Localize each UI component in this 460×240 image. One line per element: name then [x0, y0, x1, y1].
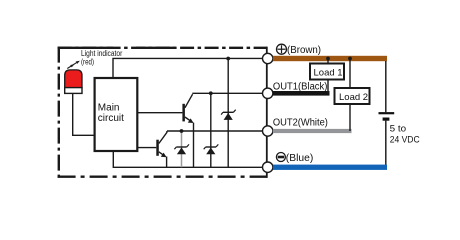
- terminal: OUT1 (Black): [263, 88, 273, 98]
- svg-text:(red): (red): [81, 58, 94, 67]
- zener diode Z1 (OUT2 protection, gray leg): [174, 131, 189, 167]
- terminal: + (Brown): [263, 53, 273, 63]
- label: OUT2(White): [273, 117, 328, 128]
- wire: bottom rail (0V): [113, 151, 262, 167]
- zener diode Z2 (OUT1 protection): [204, 93, 219, 167]
- wire: Q1 base lead: [137, 112, 182, 114]
- zener diode Z3 (supply protection): [221, 59, 236, 168]
- wire: brown +V lead: [273, 56, 387, 61]
- svg-text:Load 1: Load 1: [314, 68, 343, 79]
- svg-text:OUT1(Black): OUT1(Black): [273, 82, 328, 93]
- terminal: - (Blue): [263, 162, 273, 172]
- label: OUT1(Black): [273, 82, 328, 93]
- sensor outline dash-dot box: [58, 47, 267, 178]
- wire: LED cathode to main circuit: [73, 93, 95, 135]
- wire: blue 0V lead: [273, 165, 387, 170]
- label: +(Brown): [277, 44, 322, 56]
- LED emission arrow: [67, 61, 80, 69]
- wire: right edge bus through terminals: [266, 47, 268, 178]
- terminal: OUT2 (White): [263, 126, 273, 136]
- node: OUT2 / Z1 junction dot: [180, 129, 184, 133]
- load Load 1 (between +V and OUT1): [310, 59, 344, 94]
- svg-text:OUT2(White): OUT2(White): [273, 117, 328, 128]
- wire: Q1 emitter leg to 0V rail: [193, 123, 195, 168]
- wire: OUT1 line: [192, 92, 262, 94]
- svg-text:Load 2: Load 2: [339, 92, 368, 103]
- wire: top rail (+V): [113, 58, 263, 78]
- node: brown rail / Load1 junction dot: [326, 57, 330, 61]
- svg-text:Main: Main: [98, 102, 120, 113]
- battery B1 leg wire: [385, 61, 387, 165]
- svg-text:24 VDC: 24 VDC: [390, 135, 420, 145]
- label: -(Blue): [276, 153, 313, 165]
- label: 5 to 24 VDC: [390, 124, 420, 145]
- svg-text:(Brown): (Brown): [287, 45, 321, 56]
- node: brown rail / Load2 junction dot: [348, 57, 352, 61]
- svg-text:circuit: circuit: [98, 113, 124, 124]
- node: top rail / Z3 junction dot: [226, 57, 230, 61]
- wire: OUT2 line: [167, 130, 263, 132]
- wire: Q2 base lead: [137, 147, 156, 149]
- label: Light indicator (red): [81, 49, 123, 67]
- svg-text:5 to: 5 to: [390, 124, 407, 134]
- transistor Q2 (NPN, OUT2): [156, 131, 167, 157]
- svg-text:(Blue): (Blue): [286, 153, 314, 164]
- LED indicator D1 (red): [65, 70, 82, 94]
- load Load 2 (between +V and OUT2): [335, 59, 370, 132]
- transistor Q1 (NPN, OUT1): [182, 94, 193, 123]
- node: OUT1 / Z2 junction dot: [209, 91, 213, 95]
- main circuit block U1: [95, 78, 138, 151]
- wire: Q2 emitter leg to 0V rail: [166, 157, 168, 168]
- wire: black OUT1 lead: [273, 91, 330, 96]
- battery B1 (5 to 24 VDC): [379, 113, 395, 119]
- wire: gray OUT2 lead: [273, 129, 352, 133]
